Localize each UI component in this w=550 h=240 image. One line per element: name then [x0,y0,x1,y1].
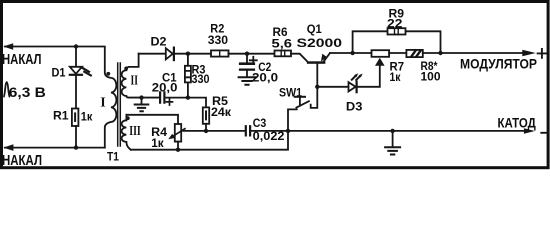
svg-text:Q1: Q1 [307,22,322,36]
transformer T1 core [118,63,121,146]
resistor R9 [388,28,406,34]
svg-text:КАТОД: КАТОД [498,116,537,131]
resistor R4 (trimmer) [168,124,185,142]
minus sign КАТОД [541,132,548,134]
resistor R1 [72,109,79,127]
wire: D2 to R2 [175,53,211,55]
node junction R5/wiper line [204,129,208,133]
wire: R7 to R8 [389,52,406,54]
winding III [122,115,131,150]
winding II with step wire to rail [122,54,159,98]
wire: Q1 base lead down to SW1 [311,64,318,108]
wire: R3 bottom stub [187,82,189,97]
svg-text:R1: R1 [53,109,69,123]
node junction ground on КАТОД line [390,129,394,133]
winding I polarity dot [106,72,110,76]
svg-text:20,0: 20,0 [252,70,278,84]
wire: top НАКАЛ line to transformer primary, with winding I [5,47,116,148]
wire: R4 bottom stub [177,142,179,150]
resistor R2 [211,50,229,56]
wire: wiper line to C3 [183,130,245,132]
wire: C3 to SW1 junction [251,130,288,132]
switch SW1 [288,97,309,131]
svg-text:D2: D2 [151,35,167,49]
svg-text:6,3 В: 6,3 В [9,85,46,100]
resistor R3 [185,66,191,83]
node junction on bottom НАКАЛ wire [74,145,78,149]
node junction on top НАКАЛ wire [74,44,78,48]
resistor R6 [275,51,292,57]
svg-text:1к: 1к [390,70,402,84]
waveform symbol 6,3 В [4,82,10,97]
svg-text:МОДУЛЯТОР: МОДУЛЯТОР [460,57,537,72]
svg-text:I: I [100,94,105,109]
svg-text:III: III [129,124,141,139]
wire: D3 to R7 wiper [358,65,380,87]
arrow НАКАЛ top [3,43,13,50]
node junction R3 top [186,52,190,56]
diode D2 [166,48,174,61]
plus sign C2 [250,57,257,64]
node junction R3 bottom [186,95,190,99]
node junction ground tap [139,95,143,99]
main rail: winding II to diode D2 [139,53,166,55]
svg-text:0,022: 0,022 [253,129,285,143]
wire: R1 to bottom НАКАЛ [75,126,77,148]
svg-text:330: 330 [208,33,228,47]
wire: base node to D3 [317,86,348,88]
diode D1 (LED) [70,67,91,76]
wire: R2 to R6 [229,53,275,55]
ground below C1 wire [141,98,143,105]
wire: R9 parallel branch [353,31,441,53]
svg-text:S2000: S2000 [297,36,343,50]
transistor Q1 emitter with arrow [324,53,330,61]
wire: C1 wire to R5 [188,98,206,108]
arrow МОДУЛЯТОР [522,50,536,57]
wire: R6 to Q1 collector [291,54,307,62]
svg-text:22: 22 [387,16,403,30]
ground below C2 [239,77,256,84]
svg-text:5,6: 5,6 [272,37,293,51]
node junction SW1/C3 [286,129,290,133]
resistor R5 [203,107,209,123]
capacitor C3 [246,126,250,135]
arrow КАТОД [524,128,535,134]
svg-text:100: 100 [421,70,441,84]
svg-text:II: II [130,74,138,89]
svg-text:1к: 1к [81,110,93,124]
svg-text:T1: T1 [107,150,119,164]
wire: D1/R1 branch upper [75,47,77,67]
node junction R9 branch left [350,51,354,55]
svg-text:330: 330 [192,72,210,86]
wiper arrow into R7 [375,58,385,66]
plus sign МОДУЛЯТОР [538,49,547,58]
svg-text:НАКАЛ: НАКАЛ [2,153,42,169]
capacitor C2 (polarized, to ground) [239,54,255,77]
node junction base/D3 [315,85,319,89]
arrow НАКАЛ bottom [3,144,13,151]
wire: winding III top to R4 [126,115,178,124]
capacitor C1 (polarized) [129,92,188,102]
diode D3 (LED) [349,73,363,92]
resistor R8* (hatched) [406,50,422,57]
wire: R8 to output [423,52,523,54]
node junction C2 top [245,52,249,56]
wire: bottom return loop to SW1/C3 junction [131,131,288,150]
wire: КАТОД line [288,130,524,132]
resistor R7 (variable) [372,50,390,57]
wire: between D1 and R1 [75,76,77,109]
winding III polarity dot [126,116,130,120]
svg-text:НАКАЛ: НАКАЛ [2,52,42,68]
wire: bottom НАКАЛ line [5,147,105,149]
svg-text:C3: C3 [253,116,267,130]
node junction R4 bottom [176,148,180,152]
wire: R3 top stub [187,54,189,66]
node junction R9 branch right [438,51,442,55]
svg-text:1к: 1к [151,136,164,150]
svg-text:D3: D3 [346,100,363,114]
plus sign C1 [167,99,173,105]
winding II polarity dot [124,67,128,71]
wire: Q1 emitter to R7 section [330,52,372,54]
svg-text:D1: D1 [52,66,66,80]
svg-text:20,0: 20,0 [152,81,178,95]
ground on КАТОД line [392,131,394,147]
wire: R5 bottom stub [205,124,207,131]
svg-text:24к: 24к [211,105,232,119]
border frame [2,2,549,168]
svg-text:SW1: SW1 [279,86,302,100]
transistor Q1 base bar [307,61,326,64]
